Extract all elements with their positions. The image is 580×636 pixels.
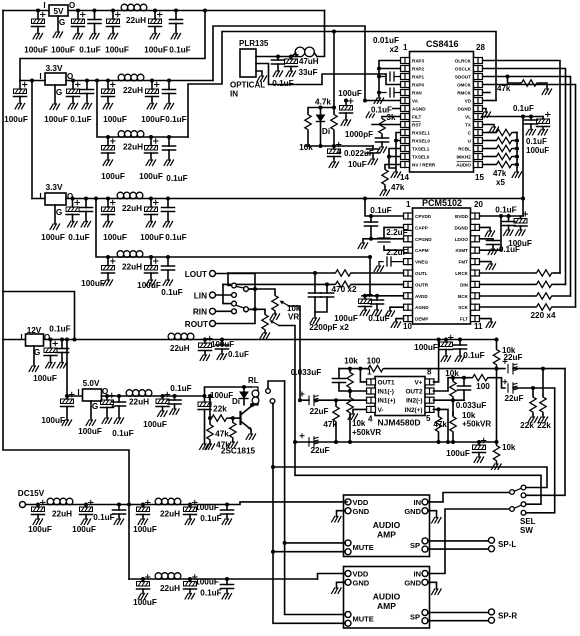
diode Di flyback bbox=[242, 385, 246, 389]
capacitor C 22uF series IN1+ bbox=[300, 399, 309, 401]
svg-text:22uF: 22uF bbox=[503, 353, 522, 362]
wire row6 feed bbox=[94, 197, 98, 201]
svg-text:22k: 22k bbox=[537, 421, 551, 430]
capacitor C 2200pF on OUTR bbox=[325, 282, 329, 286]
wire OUTR drop to switch bbox=[223, 284, 232, 303]
wire amp1 IN bbox=[428, 493, 510, 502]
wire AGND bbox=[371, 109, 401, 113]
capacitor C 100uF VL bbox=[542, 117, 544, 120]
svg-text:22uH: 22uH bbox=[123, 86, 143, 95]
svg-text:AVDD: AVDD bbox=[415, 294, 428, 299]
wire PLR135 ground stub bbox=[256, 71, 262, 76]
svg-text:470 x2: 470 x2 bbox=[331, 285, 356, 294]
wire relay contact to SEL A bbox=[273, 467, 547, 488]
capacitor C 22uF output ch1 bbox=[495, 367, 499, 371]
svg-text:G: G bbox=[56, 88, 62, 97]
svg-text:DEMP: DEMP bbox=[415, 317, 428, 322]
capacitor C 0.1uF row4 bbox=[167, 135, 171, 139]
capacitor C 100uF bbox=[106, 79, 110, 83]
wire carrier detect node bbox=[305, 145, 373, 147]
svg-text:0.1uF: 0.1uF bbox=[166, 174, 187, 183]
wire CPVDD feed from row5 bbox=[363, 197, 367, 201]
wire DC15V rail row8 bbox=[129, 578, 318, 580]
svg-text:10k: 10k bbox=[352, 419, 366, 428]
svg-text:100uF: 100uF bbox=[28, 525, 52, 534]
capacitor C 0.1uF VL bbox=[529, 115, 533, 119]
svg-text:100: 100 bbox=[367, 357, 381, 366]
svg-text:100uF: 100uF bbox=[144, 46, 168, 55]
wire 12V rail bbox=[44, 339, 497, 341]
capacitor C 0.1uF CPVDD bbox=[369, 214, 373, 218]
wire LIN to switch contact bbox=[216, 294, 232, 296]
svg-text:LRCK: LRCK bbox=[455, 271, 468, 276]
switch SW1 contacts L bbox=[232, 283, 237, 288]
svg-text:100uF: 100uF bbox=[143, 420, 167, 429]
svg-text:I: I bbox=[43, 1, 45, 10]
svg-text:DIN: DIN bbox=[460, 282, 469, 287]
svg-text:0.1uF: 0.1uF bbox=[499, 245, 520, 254]
svg-text:100uF: 100uF bbox=[414, 343, 438, 352]
svg-text:100uF: 100uF bbox=[139, 172, 163, 181]
resistor R 22k load ch1 bbox=[541, 367, 545, 371]
svg-text:0.1uF: 0.1uF bbox=[200, 589, 221, 598]
capacitor C 0.1uF AVDD bbox=[375, 294, 379, 298]
PCM5102 right pins bbox=[454, 213, 479, 322]
capacitor C 33uF PLR supply bbox=[289, 55, 293, 59]
svg-text:0.033uF: 0.033uF bbox=[291, 368, 322, 377]
svg-text:SW: SW bbox=[520, 526, 533, 535]
inductor L 22uH row1 bbox=[121, 4, 147, 11]
svg-text:DGND: DGND bbox=[454, 225, 468, 230]
IC U4 audio amp 1 bbox=[344, 495, 430, 557]
capacitor C 2200pF on OUTL bbox=[313, 271, 317, 275]
svg-text:0.1uF: 0.1uF bbox=[68, 233, 89, 242]
svg-text:0.1uF: 0.1uF bbox=[79, 46, 100, 55]
capacitor C 0.1uF row5 bbox=[166, 197, 170, 201]
regulator 3.3V no1 bbox=[20, 64, 74, 109]
switch SW2 contacts R bbox=[232, 301, 237, 306]
capacitor C 100uF bbox=[111, 9, 115, 13]
svg-text:RL: RL bbox=[248, 376, 259, 385]
wire OUTL drop to switch bbox=[228, 273, 232, 286]
svg-text:22uH: 22uH bbox=[122, 204, 142, 213]
svg-text:IN1(+): IN1(+) bbox=[378, 398, 396, 405]
svg-text:AGND: AGND bbox=[415, 305, 429, 310]
capacitor C 100uF bbox=[150, 79, 154, 83]
svg-text:AUDIO: AUDIO bbox=[456, 163, 471, 168]
svg-text:OMCK: OMCK bbox=[457, 83, 472, 88]
svg-text:10k: 10k bbox=[344, 357, 358, 366]
wire V+ to 12V rail bbox=[434, 340, 439, 382]
svg-text:AUDIO: AUDIO bbox=[373, 520, 401, 530]
svg-text:CPVDD: CPVDD bbox=[415, 214, 432, 219]
inductor L 22uH 12V rail bbox=[168, 333, 194, 340]
svg-text:100uF: 100uF bbox=[105, 46, 129, 55]
svg-text:22uH: 22uH bbox=[122, 263, 142, 272]
NJM4580D right pin boxes bbox=[425, 379, 434, 385]
svg-text:22uH: 22uH bbox=[170, 344, 190, 353]
capacitor C 2.2uF CAPP-CAPM bbox=[384, 227, 404, 238]
svg-text:IN1(-): IN1(-) bbox=[378, 389, 394, 396]
wire bus junction row7 bbox=[127, 503, 131, 507]
wire DAC R to SEL F bbox=[526, 388, 555, 513]
resistor R 100 ch2 bbox=[471, 375, 489, 381]
capacitor C 0.1uF 12V decouple bbox=[458, 338, 462, 342]
svg-text:0.1uF: 0.1uF bbox=[161, 288, 182, 297]
capacitor C 0.1uF row6 bbox=[166, 255, 170, 259]
svg-text:MUTE: MUTE bbox=[353, 615, 374, 624]
wire RXSEL ties bbox=[389, 133, 401, 173]
svg-text:100uF: 100uF bbox=[41, 416, 65, 425]
svg-text:100uF: 100uF bbox=[141, 115, 165, 124]
wire LB branch to PLL cluster bbox=[332, 30, 336, 34]
svg-text:SP-L: SP-L bbox=[498, 540, 516, 549]
svg-text:CPGND: CPGND bbox=[415, 237, 432, 242]
svg-text:AMP: AMP bbox=[377, 530, 396, 540]
svg-text:0.1uF: 0.1uF bbox=[228, 350, 249, 359]
svg-text:3.3V: 3.3V bbox=[46, 64, 63, 73]
wire OLRCK to PCM bbox=[483, 61, 561, 274]
svg-text:DGND: DGND bbox=[457, 107, 471, 112]
svg-text:OUTR: OUTR bbox=[415, 282, 429, 287]
regulator 5V bbox=[43, 1, 75, 37]
wire amp1 GND left bbox=[337, 511, 346, 517]
wire DAC L to SEL C bbox=[526, 369, 565, 496]
capacitor C 100uF row6 bbox=[149, 255, 153, 259]
svg-text:TXSEL0: TXSEL0 bbox=[412, 155, 430, 160]
svg-text:OUT2: OUT2 bbox=[405, 389, 422, 396]
wire AGND bbox=[390, 307, 404, 311]
svg-text:CAPM: CAPM bbox=[415, 248, 429, 253]
svg-text:47k: 47k bbox=[323, 420, 337, 429]
wire amp2 IN bbox=[428, 509, 510, 574]
svg-text:0.033uF: 0.033uF bbox=[456, 401, 487, 410]
capacitor C 0.1uF bbox=[84, 197, 88, 201]
wire RIN to switch contact bbox=[216, 310, 232, 312]
svg-text:AGND: AGND bbox=[412, 107, 426, 112]
svg-text:0.1uF: 0.1uF bbox=[272, 79, 293, 88]
resistor R 10k feedback ch2 bbox=[452, 378, 454, 380]
wire IN1- line bbox=[348, 389, 352, 393]
wire amp2 GND right bbox=[428, 582, 437, 589]
svg-text:G: G bbox=[56, 208, 62, 217]
svg-text:0.1uF: 0.1uF bbox=[368, 314, 389, 323]
wire base node bbox=[229, 417, 240, 419]
CS8416 right pins bbox=[455, 58, 483, 168]
capacitor C 0.1uF 5.0V bbox=[117, 394, 121, 398]
capacitor C 100uF after L1 bbox=[153, 9, 157, 13]
svg-text:22k: 22k bbox=[520, 421, 534, 430]
svg-text:100uF: 100uF bbox=[81, 279, 105, 288]
wire 5V input rail bbox=[3, 10, 49, 12]
svg-text:+50kVR: +50kVR bbox=[352, 428, 381, 437]
svg-text:SP-R: SP-R bbox=[498, 612, 517, 621]
svg-text:100uF: 100uF bbox=[133, 598, 157, 607]
capacitor C 0.1uF after L1 bbox=[174, 9, 178, 13]
capacitor C 100uF 5.0V bbox=[105, 394, 109, 398]
svg-text:TX: TX bbox=[465, 123, 472, 128]
capacitor C 100uF bbox=[76, 9, 80, 13]
wire main left DC bus bbox=[3, 11, 129, 505]
svg-text:CS8416: CS8416 bbox=[426, 39, 459, 49]
wire SDOUT to PCM bbox=[483, 77, 571, 297]
inductor L 47uH bbox=[295, 47, 305, 57]
wire OMCK to PCM bbox=[483, 85, 576, 308]
svg-text:100uF: 100uF bbox=[334, 314, 358, 323]
svg-text:100uF: 100uF bbox=[33, 374, 57, 383]
wire 5V output rail bbox=[68, 10, 325, 12]
terminal SP-R bbox=[489, 609, 495, 615]
wire OSCLK to PCM bbox=[483, 69, 566, 285]
svg-text:100uF: 100uF bbox=[41, 233, 65, 242]
svg-text:SP: SP bbox=[410, 613, 420, 622]
svg-text:100uF: 100uF bbox=[133, 525, 157, 534]
wire XSMT tie to BVDD bbox=[499, 214, 503, 218]
resistor R 10k divider bottom bbox=[496, 442, 498, 444]
svg-text:VDD: VDD bbox=[353, 570, 369, 579]
svg-text:15: 15 bbox=[475, 173, 484, 182]
capacitor C 100uF after 5V coil bbox=[161, 394, 165, 398]
svg-text:2200pF x2: 2200pF x2 bbox=[309, 323, 349, 332]
resistor R 220 BCK bbox=[480, 295, 536, 297]
svg-text:RST: RST bbox=[412, 123, 421, 128]
svg-text:100uF: 100uF bbox=[446, 449, 470, 458]
capacitor C 100uF 12V decouple bbox=[444, 338, 448, 342]
svg-text:VL: VL bbox=[465, 115, 471, 120]
wire amp1 SP to SP-L bbox=[428, 541, 489, 549]
capacitor C 100uF AVDD bbox=[363, 294, 367, 298]
svg-text:RXP1: RXP1 bbox=[412, 75, 424, 80]
svg-text:22uH: 22uH bbox=[123, 143, 143, 152]
svg-text:x5: x5 bbox=[496, 178, 505, 187]
wire 5V to 3.3V reg1 input bbox=[203, 9, 207, 13]
svg-text:VDD: VDD bbox=[353, 498, 369, 507]
resistor R 3k + C 1000pF on FILT bbox=[382, 116, 401, 119]
wire V- ground bbox=[353, 409, 367, 414]
svg-text:OSCLK: OSCLK bbox=[455, 67, 472, 72]
svg-text:100uF: 100uF bbox=[44, 115, 68, 124]
svg-text:BVDD: BVDD bbox=[455, 214, 469, 219]
svg-text:0.1uF: 0.1uF bbox=[112, 429, 133, 438]
terminal SP-L bbox=[489, 537, 495, 543]
wire RMCK stub bbox=[483, 92, 491, 94]
wire OUTL with 470 resistor bbox=[352, 272, 404, 274]
inductor L 22uH row8 bbox=[155, 573, 181, 580]
wire PLR135 signal out bbox=[256, 64, 386, 85]
svg-text:100uF: 100uF bbox=[103, 115, 127, 124]
relay contact circles bbox=[266, 389, 271, 394]
svg-text:RXP0: RXP0 bbox=[412, 83, 424, 88]
svg-text:0.1uF: 0.1uF bbox=[371, 106, 392, 115]
capacitor C 0.1uF after 5V coil bbox=[173, 394, 177, 398]
svg-text:RCBL: RCBL bbox=[458, 147, 471, 152]
capacitor C 100uF row8 bbox=[188, 577, 192, 581]
svg-text:22uF: 22uF bbox=[310, 446, 329, 455]
svg-text:IN2(+): IN2(+) bbox=[405, 407, 423, 414]
svg-text:ROUT: ROUT bbox=[185, 320, 208, 329]
wire amp2 SP to SP-R bbox=[428, 613, 489, 621]
capacitor C 100uF row8 pre bbox=[141, 577, 145, 581]
capacitor C 100uF 5V in bbox=[36, 9, 40, 13]
resistor R 47k IN1+ bias bbox=[334, 398, 338, 402]
svg-text:FMT: FMT bbox=[459, 260, 469, 265]
resistor R 47k on NV/RERR bbox=[385, 165, 401, 169]
resistor R 47k IN2+ bias bbox=[437, 440, 441, 444]
capacitor C 0.1uF row7b bbox=[225, 503, 229, 507]
svg-text:22uH: 22uH bbox=[52, 510, 72, 519]
svg-text:2.2uF: 2.2uF bbox=[386, 228, 407, 237]
wire row4 feed bbox=[95, 79, 99, 83]
svg-text:I: I bbox=[20, 333, 22, 342]
svg-text:Di: Di bbox=[232, 397, 240, 406]
svg-text:LOUT: LOUT bbox=[185, 270, 207, 279]
capacitor C 2.2uF VNEG bbox=[379, 257, 404, 266]
svg-text:x2: x2 bbox=[389, 45, 399, 54]
svg-text:22uF: 22uF bbox=[504, 394, 523, 403]
wire BVDD feed bus bbox=[521, 115, 525, 119]
transistor Q1 2SC1815 bbox=[241, 407, 256, 440]
svg-text:14: 14 bbox=[400, 173, 409, 182]
svg-text:AMP: AMP bbox=[377, 601, 396, 611]
wire 5.0V rail bbox=[102, 395, 205, 397]
svg-text:47k: 47k bbox=[433, 420, 447, 429]
capacitor C 100uF bias bbox=[477, 440, 481, 444]
svg-text:5V: 5V bbox=[53, 7, 64, 16]
regulator 5.0V bbox=[77, 379, 108, 436]
wire volume R to SEL D bbox=[295, 442, 541, 504]
capacitor C 0.1uF BVDD bbox=[507, 214, 511, 218]
capacitor C 0.1uF bbox=[85, 79, 89, 83]
svg-text:22uH: 22uH bbox=[129, 398, 149, 407]
inductor L 22uH row7a bbox=[47, 498, 73, 505]
svg-text:100uF: 100uF bbox=[101, 172, 125, 181]
svg-text:0.1uF: 0.1uF bbox=[513, 104, 534, 113]
resistor R 47k lower1 bbox=[208, 416, 212, 420]
capacitor C 100uF row7b pre bbox=[141, 503, 145, 507]
svg-text:4.7k: 4.7k bbox=[315, 98, 331, 107]
svg-text:0.1uF: 0.1uF bbox=[93, 513, 114, 522]
wire 3.3V no2 rail row5 bbox=[66, 198, 523, 200]
svg-text:DC15V: DC15V bbox=[18, 489, 45, 498]
label 0.1uF white box bbox=[370, 106, 392, 115]
svg-text:BCK: BCK bbox=[458, 294, 469, 299]
capacitor C 100uF after 12V coil bbox=[203, 338, 207, 342]
wire OUTR with 470 resistor bbox=[352, 283, 404, 285]
svg-text:V+: V+ bbox=[415, 379, 423, 386]
wire 12V-to-5V feed bbox=[3, 292, 75, 340]
wire DGND bbox=[483, 109, 487, 113]
svg-text:GND: GND bbox=[353, 578, 370, 587]
svg-text:0.01uF: 0.01uF bbox=[373, 36, 399, 45]
wire branch to 3.3V reg2 bbox=[30, 79, 34, 83]
wire SW2 common to pot2 bbox=[246, 309, 265, 313]
svg-text:VA: VA bbox=[412, 99, 419, 104]
svg-text:3.3V: 3.3V bbox=[46, 183, 63, 192]
svg-text:0.1uF: 0.1uF bbox=[370, 206, 391, 215]
wire VD supply bbox=[483, 100, 497, 102]
svg-text:V-: V- bbox=[378, 407, 384, 414]
wire VA supply line LA bbox=[213, 26, 365, 101]
svg-text:28: 28 bbox=[476, 43, 485, 52]
svg-text:2SC1815: 2SC1815 bbox=[221, 447, 256, 456]
svg-text:47uH: 47uH bbox=[299, 57, 319, 66]
svg-text:SCK: SCK bbox=[458, 305, 468, 310]
svg-text:10: 10 bbox=[403, 322, 412, 331]
resistor R 220 SCK bbox=[480, 306, 536, 308]
inductor L 22uH row4 bbox=[118, 131, 144, 138]
svg-text:GND: GND bbox=[404, 578, 421, 587]
resistor R 22k base bbox=[208, 394, 212, 398]
wire OUT1 to node bbox=[339, 369, 367, 382]
capacitor C 0.1uF row8 bbox=[225, 577, 229, 581]
capacitor C 0.1uF 12V bbox=[60, 338, 64, 342]
svg-text:LDOO: LDOO bbox=[455, 237, 469, 242]
capacitor C 0.1uF after 12V coil bbox=[220, 338, 224, 342]
svg-text:10k: 10k bbox=[299, 143, 313, 152]
svg-text:0.1uF: 0.1uF bbox=[200, 514, 221, 523]
capacitor C 10uF bbox=[333, 146, 335, 149]
svg-text:100uF: 100uF bbox=[72, 525, 96, 534]
svg-text:AUDIO: AUDIO bbox=[373, 592, 401, 602]
IC U5 audio amp 2 bbox=[344, 567, 430, 629]
resistor R 100 ch1 bbox=[367, 365, 385, 371]
wire FLT ground bbox=[480, 319, 492, 322]
wire RST bbox=[372, 124, 401, 126]
potentiometer VR1 10k bbox=[272, 294, 278, 312]
bias rail bbox=[295, 441, 497, 443]
inductor L 22uH row7b bbox=[155, 498, 181, 505]
svg-text:100uF: 100uF bbox=[103, 233, 127, 242]
svg-text:I: I bbox=[77, 388, 79, 397]
resistor R 10k vertical bbox=[333, 108, 335, 114]
CS8416 left pins bbox=[401, 58, 436, 168]
svg-text:FILT: FILT bbox=[412, 115, 422, 120]
inductor L 22uH 5.0V bbox=[126, 390, 152, 397]
regulator 3.3V no2 bbox=[32, 183, 74, 229]
wire mute bus lower bbox=[273, 404, 345, 623]
wire DGND bbox=[480, 227, 491, 231]
wire CPGND bbox=[363, 239, 404, 243]
capacitor C 0.1uF bbox=[93, 9, 97, 13]
svg-text:FLT: FLT bbox=[460, 317, 468, 322]
svg-text:22k: 22k bbox=[213, 405, 227, 414]
svg-text:OLRCK: OLRCK bbox=[455, 59, 472, 64]
wire AVDD feed from row6 bbox=[368, 255, 372, 259]
inductor L 22uH row3 bbox=[118, 74, 144, 81]
resistor R 22k load ch2 bbox=[531, 386, 535, 390]
potentiometer VR2 10k bbox=[262, 313, 268, 331]
wire collector to relay coil bbox=[251, 405, 252, 407]
wire pot1 wiper to IN1+ bbox=[289, 306, 300, 400]
wire amp1 VDD bbox=[345, 501, 347, 503]
svg-text:SP: SP bbox=[410, 541, 420, 550]
svg-text:0.1uF: 0.1uF bbox=[526, 137, 547, 146]
svg-text:1: 1 bbox=[403, 43, 408, 52]
svg-text:20: 20 bbox=[474, 200, 483, 209]
wire pot2 wiper to IN2+ line bbox=[279, 326, 295, 443]
capacitor C 100uF BVDD bbox=[520, 216, 522, 219]
svg-text:100uF: 100uF bbox=[51, 46, 75, 55]
svg-text:IN2(-): IN2(-) bbox=[406, 398, 422, 405]
svg-text:47k: 47k bbox=[215, 430, 229, 439]
switch contact circles repaint bbox=[232, 283, 237, 288]
inductor L 22uH row5 bbox=[117, 192, 143, 199]
wire OUT2 to node bbox=[434, 378, 472, 391]
resistor R 10k+50kVR ch2 bbox=[451, 440, 455, 444]
wire RXP3 RXP2 tie bus bbox=[379, 61, 401, 99]
svg-text:47k: 47k bbox=[391, 183, 405, 192]
wire VD supply line LB bbox=[188, 32, 496, 138]
